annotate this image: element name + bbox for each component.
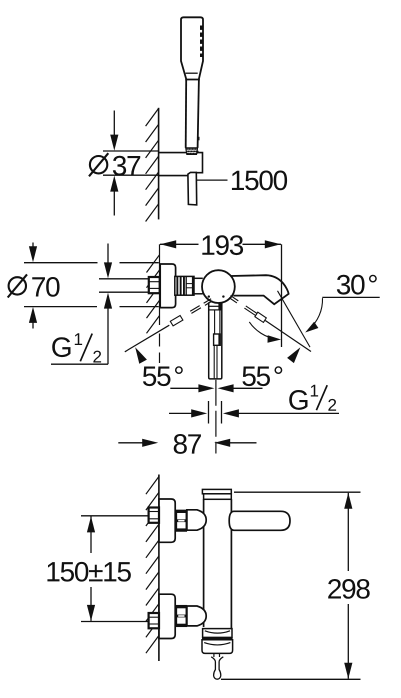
hex union nut behind wall (middle view) xyxy=(149,277,160,293)
body neck (middle view) xyxy=(194,278,203,294)
wall (bottom view) xyxy=(146,475,159,662)
dimension Ø70 (escutcheon) xyxy=(8,243,159,329)
label G 1/2 (left) xyxy=(52,333,101,362)
wall holder bracket xyxy=(159,153,203,176)
label 30° with leader xyxy=(322,275,379,298)
right extension line (spout end) xyxy=(281,244,283,347)
dimension 193 (wall to spout) xyxy=(160,235,281,255)
55° swing line right (dashed lever silhouette) xyxy=(229,296,311,352)
hand shower handle xyxy=(186,73,199,148)
label 1500 (hose length) with leader xyxy=(197,170,287,190)
shower hose xyxy=(188,172,197,205)
water flow line 30 deg xyxy=(278,291,311,347)
converging arrows at centerline (55/55) xyxy=(170,384,262,392)
lower hex nut behind wall (side view) xyxy=(149,613,159,628)
lower escutcheon (side view) xyxy=(159,594,175,638)
hand shower head xyxy=(181,17,203,79)
wall (top view) xyxy=(146,108,159,222)
label 55° right with arrow xyxy=(242,347,300,386)
lower S-union knurled nut (side view) xyxy=(176,606,186,627)
wall line / left extension (middle view) xyxy=(147,244,160,363)
dimension 298 xyxy=(221,492,370,679)
G 1/2 inlet dimension lines (left) xyxy=(51,244,149,365)
dimension 87 xyxy=(118,434,256,454)
top cap (side view) xyxy=(202,489,231,499)
lever pivot dots xyxy=(208,295,225,297)
upper escutcheon (side view) xyxy=(159,499,175,542)
S-union knurled nuts (middle view) xyxy=(175,276,194,295)
escutcheon (middle view) xyxy=(160,264,175,308)
water drip at outlet xyxy=(211,653,223,679)
upper hex nut behind wall (side view) xyxy=(149,508,159,523)
shower handle knurled cone (stippled) xyxy=(185,148,198,155)
lever handle (front view, hanging down) xyxy=(209,302,222,379)
upper ball connector (D-shaped union end) xyxy=(187,510,206,530)
30° angle arc left with arrow xyxy=(249,322,281,343)
30° angle arc right with arrow xyxy=(305,298,322,332)
dimension 150±15 xyxy=(47,516,148,622)
upper S-union knurled nut (side view) xyxy=(176,510,186,531)
dimension Ø37 (holder height) xyxy=(89,111,159,216)
body cylinder (side view) xyxy=(204,499,232,628)
label 55° left with arrow xyxy=(135,347,183,386)
centerline (outlet axis) xyxy=(215,380,217,454)
G 1/2 outlet dimension (bottom of middle view) xyxy=(169,401,339,424)
lever handle (side view) xyxy=(229,511,290,530)
cartridge circle (front view) xyxy=(202,270,235,303)
lower ball connector (D-shaped union end) xyxy=(187,606,206,626)
tub spout (front view) xyxy=(231,275,289,304)
55° swing line left (dashed lever silhouette) xyxy=(125,299,213,352)
outlet housing (side view) xyxy=(202,629,233,654)
label G 1/2 (right) xyxy=(289,385,336,411)
